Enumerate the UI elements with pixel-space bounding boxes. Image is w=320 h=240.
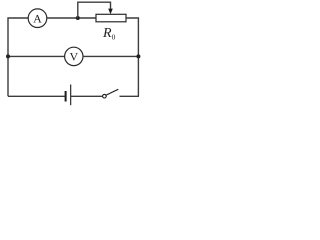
wire middle right: [83, 55, 138, 57]
wiper arrowhead: [108, 9, 113, 15]
voltmeter V1: [65, 47, 83, 65]
svg-text:R0: R0: [102, 26, 116, 41]
switch lever: [106, 89, 118, 95]
rheostat R0 body: [96, 14, 126, 21]
svg-text:V: V: [69, 50, 78, 64]
wire ammeter to junction: [47, 17, 96, 19]
switch S1 pivot: [103, 94, 107, 98]
wire wiper branch: [78, 2, 111, 18]
svg-text:A: A: [33, 11, 42, 25]
node dot right: [136, 54, 140, 58]
ammeter A1: [28, 9, 47, 28]
wire battery to switch: [71, 95, 103, 97]
node dot left: [6, 54, 10, 58]
wire bottom left to battery: [8, 95, 65, 97]
battery cell long plate: [70, 85, 72, 106]
wire switch to bottom right: [120, 95, 140, 97]
node junction dot: [76, 16, 80, 20]
wire top-left segment: [8, 18, 28, 96]
wire rheostat to right side: [126, 18, 138, 96]
wire middle left: [8, 55, 65, 57]
battery cell short plate: [65, 91, 67, 102]
